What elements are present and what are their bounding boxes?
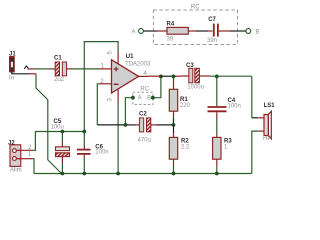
wire R4 to C7: [196, 30, 208, 32]
capacitor C3 (polarized 1000u): [186, 63, 204, 91]
svg-text:RC: RC: [191, 4, 200, 10]
wire J2 pin1 to ground rail: [32, 159, 34, 174]
pin lead R4 right: [188, 30, 196, 32]
svg-text:B: B: [256, 29, 260, 35]
wire terminal A to pin2 net: [125, 98, 132, 125]
pin lead C1 left: [50, 68, 55, 70]
pin lead R4 left: [158, 30, 168, 32]
wire LS1 bottom to ground rail: [252, 131, 258, 173]
connector J1: [9, 52, 16, 82]
junction C6 top / V+ riser: [82, 130, 86, 134]
resistor R1: [169, 76, 190, 125]
wire J1 to C1: [35, 68, 51, 70]
wire C1 to U1 pin 1: [72, 68, 99, 70]
svg-text:C7: C7: [208, 17, 216, 23]
junction R1/R2/C2: [172, 123, 176, 127]
wire C3 to C4/LS1 node: [210, 75, 252, 77]
wire V+ supply to pin 5: [84, 42, 118, 132]
svg-text:HP: HP: [263, 136, 271, 142]
junction R1 top: [172, 75, 176, 79]
svg-text:Alim: Alim: [10, 167, 22, 173]
RC subcircuit dashed box: [153, 10, 237, 45]
wire node A to R4: [144, 30, 158, 32]
RC block terminal A: [131, 96, 135, 100]
loudspeaker LS1: [263, 103, 275, 142]
svg-text:2.2: 2.2: [181, 145, 190, 151]
resistor R2: [169, 125, 190, 174]
pin lead C1 right: [67, 68, 72, 70]
pin lead LS1 top: [258, 117, 264, 119]
pin lead C7 left: [208, 30, 212, 32]
pin lead LS1 bottom: [258, 130, 264, 132]
svg-text:100n: 100n: [228, 104, 241, 110]
svg-text:C1: C1: [54, 56, 62, 62]
svg-text:470u: 470u: [138, 138, 151, 144]
wire J1 sleeve to ground (down, diagonal): [12, 72, 30, 74]
junction rail R2: [172, 172, 176, 176]
U1 pin 1 lead: [99, 68, 112, 70]
wire terminal B to output net: [153, 76, 161, 97]
ground rail: [34, 173, 252, 175]
capacitor C6: [77, 132, 109, 174]
RC block terminal B: [151, 96, 155, 100]
svg-text:A: A: [138, 96, 142, 102]
wire pin 3 to ground rail: [117, 102, 119, 173]
svg-text:2u2: 2u2: [54, 77, 65, 83]
svg-text:39n: 39n: [207, 38, 217, 44]
node A (RC detail left terminal): [132, 29, 144, 36]
J2 pin 1 lead: [16, 158, 32, 160]
node B (RC detail right terminal): [246, 29, 260, 36]
wire LS1 top black stub: [252, 117, 258, 119]
svg-text:220: 220: [180, 103, 191, 109]
U1 pin 5 lead: [117, 52, 119, 64]
wire C7 to node B: [230, 30, 246, 32]
U1 pin 3 lead: [117, 89, 119, 102]
svg-text:TDA2003: TDA2003: [125, 61, 151, 67]
junction A riser / pin2 wire: [124, 123, 128, 127]
resistor R3: [213, 135, 233, 174]
op-amp U1 TDA2003: [99, 51, 151, 103]
wire U1 pin 2 to C2: [97, 84, 99, 125]
svg-text:100u: 100u: [51, 125, 64, 131]
pin lead C3 right: [199, 75, 210, 77]
svg-text:A: A: [132, 29, 136, 35]
connector J2: [8, 140, 33, 173]
capacitor C4: [208, 98, 241, 119]
junction rail C6: [82, 172, 86, 176]
capacitor C7: [207, 17, 218, 44]
wire J2 pin2 to V+ rail: [33, 132, 84, 151]
svg-text:LS1: LS1: [264, 103, 276, 109]
output wire pin4 to C3: [148, 75, 161, 77]
svg-text:U1: U1: [126, 54, 134, 60]
capacitor C2 (polarized 470u): [136, 112, 157, 144]
svg-text:RC: RC: [140, 87, 149, 93]
svg-text:R4: R4: [167, 22, 175, 28]
capacitor C5 (polarized 100u): [51, 119, 70, 174]
svg-text:1000u: 1000u: [187, 85, 204, 91]
svg-text:39: 39: [167, 36, 174, 42]
svg-text:In: In: [9, 76, 14, 82]
svg-text:100n: 100n: [95, 149, 108, 155]
svg-text:B: B: [147, 96, 151, 102]
wire output node to LS1 top: [251, 76, 253, 117]
junction C5 top: [61, 130, 65, 134]
svg-text:C2: C2: [139, 112, 147, 118]
wire C2 to R1/R2 junction: [157, 124, 174, 126]
pin lead J1 tip: [28, 68, 35, 70]
capacitor C1 (polarized 2u2): [54, 56, 67, 83]
wire C4 top lead: [216, 76, 218, 106]
junction C4 top: [215, 75, 219, 79]
J2 pin 2 lead: [16, 149, 33, 151]
junction rail pin3: [116, 172, 120, 176]
pin lead C7 right: [219, 30, 230, 32]
junction rail R3: [215, 172, 219, 176]
junction rail C5: [61, 172, 65, 176]
junction B riser / output: [159, 75, 163, 79]
U1 pin 2 lead: [99, 83, 112, 85]
wire C4 to R3: [216, 119, 218, 135]
RC block (in circuit) dashed box: [133, 92, 153, 104]
pin lead C3 left: [181, 75, 189, 77]
U1 pin 4 lead: [139, 75, 148, 77]
resistor R4: [167, 22, 189, 43]
J1 tip contact arrow: [24, 66, 28, 69]
